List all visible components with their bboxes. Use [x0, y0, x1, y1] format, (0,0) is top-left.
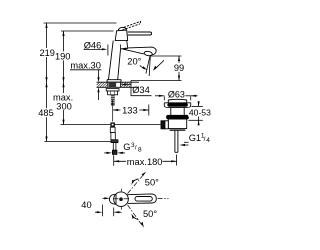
mounting nut: [108, 91, 118, 95]
side rod sleeve: [165, 121, 169, 129]
extension line deck level right: [131, 80, 182, 82]
stream tilted line: [146, 56, 150, 74]
dimension 133: [113, 105, 149, 116]
svg-text:50°: 50°: [145, 177, 159, 187]
tail tube: [175, 131, 178, 153]
plug cap: [168, 99, 186, 102]
deck hatching right: [121, 82, 131, 87]
cartridge box: [115, 30, 128, 41]
angle arc upper: [132, 179, 138, 220]
aerator: [144, 51, 153, 57]
top view horizontal centerline: [113, 189, 129, 210]
dimension 219 line: [46, 23, 48, 82]
arrow swivel lower: [141, 222, 144, 228]
lever raised dashed: [122, 21, 141, 30]
arrow right side of Ø46: [121, 48, 127, 50]
top view: spout tip: [110, 192, 129, 207]
extension line top (max height ref): [44, 22, 117, 24]
Ø46 extension ticks: [107, 45, 109, 56]
svg-text:8: 8: [138, 146, 142, 153]
arrow 219 bottom: [45, 77, 47, 82]
deck cross-section: [97, 82, 140, 87]
label 219: [39, 48, 56, 57]
label G3/8 with arrows: [107, 152, 123, 154]
arrow max30 down: [97, 77, 99, 82]
arrow 99 bottom: [178, 76, 180, 81]
svg-text:/: /: [135, 144, 137, 151]
base flange: [107, 80, 121, 83]
under-deck washer: [106, 89, 119, 95]
deck hatching left: [97, 82, 131, 87]
threaded rod: [111, 95, 115, 106]
flange plate: [164, 103, 190, 108]
G3/8 nut: [112, 150, 117, 154]
pull-rod clamp node: [110, 122, 115, 127]
arrow max300 top: [62, 82, 64, 87]
arrow max30 up: [97, 87, 99, 92]
dimension 40 top view: [95, 198, 122, 216]
hole edge right: [120, 82, 122, 87]
extension tick at spout reach: [148, 105, 150, 116]
supply hose: [110, 127, 118, 154]
svg-text:99: 99: [174, 63, 184, 73]
svg-text:133: 133: [122, 105, 138, 115]
swivel line upper 50: [128, 173, 146, 226]
faucet side view: [107, 21, 156, 82]
hose crimp: [111, 140, 118, 143]
dimension 190 line: [63, 31, 65, 82]
angle leader right: [155, 60, 164, 69]
dimension 99 line: [178, 56, 180, 81]
svg-text:40-53: 40-53: [189, 107, 211, 117]
svg-text:40: 40: [81, 200, 91, 210]
svg-text:20°: 20°: [127, 57, 141, 67]
arrow 190 bottom: [62, 77, 64, 82]
svg-text:G1: G1: [189, 133, 201, 143]
top view: center dot: [119, 197, 123, 201]
extension line aerator level: [150, 55, 182, 57]
svg-text:190: 190: [55, 52, 71, 62]
seal band: [168, 103, 188, 106]
faucet centerline below: [112, 100, 114, 128]
svg-text:max.30: max.30: [70, 61, 101, 71]
svg-text:300: 300: [56, 102, 72, 112]
drain pop-up waste: [161, 99, 191, 152]
arrow 219 top: [45, 23, 47, 28]
dimension 40-53: [188, 101, 202, 125]
label G1 1/4 with leader arrow: [180, 144, 186, 146]
dimension max.180: [114, 155, 177, 166]
top view: lever: [127, 194, 156, 204]
svg-text:max.180: max.180: [127, 157, 163, 167]
side rod cap: [161, 121, 165, 129]
waste body: [168, 119, 186, 129]
dimension Ø63: [155, 96, 198, 101]
svg-text:Ø34: Ø34: [132, 85, 150, 95]
body right edge: [118, 49, 121, 80]
lever pivot cap: [118, 27, 126, 31]
extension line handle-top ref: [61, 30, 114, 32]
arrow 485 top: [45, 82, 47, 87]
pull-rod horizontal line: [61, 124, 162, 126]
swivel line lower 50: [128, 205, 143, 227]
body left edge: [109, 41, 114, 80]
svg-text:Ø46: Ø46: [84, 40, 102, 50]
dimension max300 line: [63, 82, 65, 124]
label 190: [54, 51, 71, 60]
svg-text:485: 485: [38, 108, 54, 118]
neck: [171, 108, 184, 116]
label 99: [173, 63, 185, 72]
label 485: [38, 108, 55, 117]
label max300: [52, 93, 74, 110]
body bottom rim: [170, 129, 186, 131]
hose tube: [113, 143, 116, 151]
top view: body circle: [114, 192, 129, 207]
shank through deck: [109, 82, 116, 87]
svg-text:219: 219: [39, 48, 55, 58]
arrow 485 bottom: [45, 137, 47, 142]
extension line hose-end ref: [45, 141, 111, 143]
svg-text:50°: 50°: [143, 209, 157, 219]
o-ring seal: [167, 115, 189, 119]
svg-text:/: /: [204, 136, 206, 143]
arrow swivel upper: [142, 172, 147, 176]
stream vertical reference line: [149, 56, 150, 76]
dimension 485 line: [46, 82, 48, 141]
arrow 99 top: [178, 56, 180, 61]
hole edge left: [107, 82, 109, 87]
angle leader left: [140, 65, 145, 69]
spout underside: [121, 49, 144, 54]
svg-text:G: G: [123, 142, 130, 152]
svg-text:4: 4: [206, 137, 210, 144]
arrow 190 top: [62, 31, 64, 36]
arrow max300 bottom: [62, 120, 64, 125]
svg-text:Ø63: Ø63: [168, 90, 185, 100]
lever arm: [128, 32, 152, 35]
spout outline: [127, 41, 156, 55]
label Ø34 with leader: [127, 81, 152, 96]
